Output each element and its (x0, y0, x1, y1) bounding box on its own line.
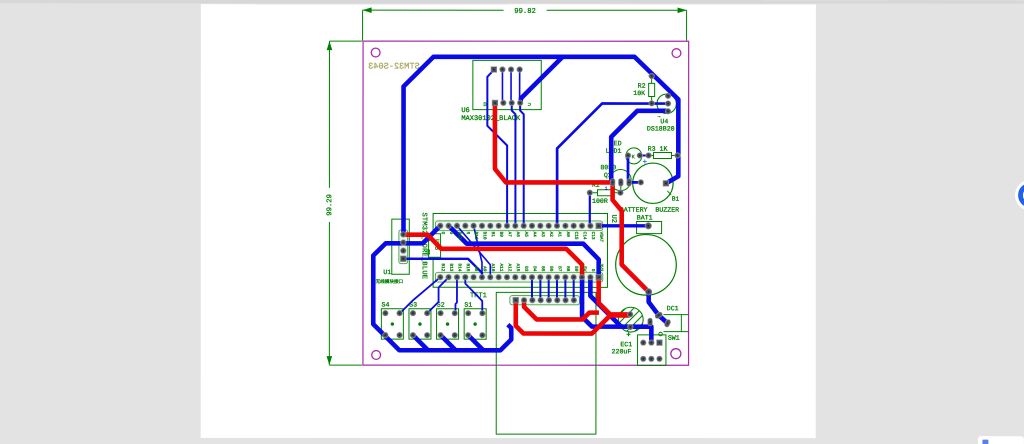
led LED1 outline (626, 148, 642, 164)
wire LED1 anode to R3 (640, 154, 649, 156)
svg-text:8050: 8050 (600, 164, 616, 171)
dimension arrowheads (363, 7, 372, 13)
svg-text:B11: B11 (473, 232, 478, 240)
wire header to TFT pad4 (539, 277, 541, 300)
svg-text:99.29: 99.29 (326, 194, 334, 216)
led LED1 pads (625, 153, 642, 159)
svg-text:B9: B9 (573, 266, 578, 272)
wire header to TFT pad5 (548, 277, 550, 300)
svg-text:G: G (448, 232, 453, 235)
dimension 99.29 vertical line (328, 41, 330, 365)
svg-text:→: → (658, 114, 661, 120)
buzzer B1 pads (638, 180, 669, 187)
transistor Q1 8050 outline (610, 169, 631, 190)
svg-text:A6: A6 (515, 232, 520, 238)
capacitor EC1 pads (627, 312, 633, 330)
svg-text:220uF: 220uF (612, 348, 632, 355)
wire header to TFT pad3 (531, 277, 533, 300)
svg-text:B8: B8 (565, 266, 570, 272)
push button S2 (437, 302, 459, 340)
wire square pad down to EC1 plus (599, 276, 630, 315)
resistor R3 pads (646, 153, 681, 159)
svg-text:B10: B10 (482, 232, 487, 240)
svg-text:B0: B0 (498, 232, 503, 238)
wire U6 pad1 route to header A7 (487, 70, 507, 226)
wire S2 to header B14 (455, 277, 457, 313)
svg-text:U4: U4 (660, 118, 668, 125)
wire U6 row stub c (519, 71, 521, 102)
wire header to TFT pad8 (573, 277, 575, 300)
module U6 pads (491, 67, 523, 106)
dimension 99.82 horizontal line (363, 9, 687, 11)
svg-text:VBAT: VBAT (598, 232, 603, 243)
button pads S4 S3 S2 S1 (383, 310, 486, 338)
svg-text:DC1: DC1 (667, 305, 679, 312)
svg-text:A12: A12 (507, 263, 512, 271)
wire U6 row stub b (510, 71, 512, 102)
svg-text:A5: A5 (523, 232, 528, 238)
resistor R2 pads (649, 73, 655, 106)
svg-text:U1: U1 (383, 269, 391, 276)
svg-text:R3 1K: R3 1K (648, 146, 668, 153)
svg-text:C14: C14 (582, 232, 587, 240)
wire S4 to header B12 (400, 277, 440, 313)
polarity mark near R3 (643, 159, 647, 163)
wire U2 pin2 across to square pad (449, 226, 599, 276)
transistor Q1 pads (610, 179, 631, 187)
push button S3 (409, 302, 431, 340)
svg-text:5V: 5V (582, 266, 587, 272)
header U2 bottom pin labels (440, 263, 603, 271)
svg-text:B15: B15 (465, 263, 470, 271)
svg-text:STM32-S043: STM32-S043 (368, 61, 420, 71)
wire button S1 tap (468, 335, 483, 350)
svg-text:B4: B4 (532, 266, 537, 272)
resistor R2 (649, 76, 655, 103)
svg-text:R: R (465, 232, 470, 235)
svg-text:SW1: SW1 (668, 335, 680, 342)
wire header to TFT pad6 (556, 277, 558, 300)
wire TFT pad1 to EC1 (516, 300, 630, 333)
wire header to TFT pad7 (564, 277, 566, 300)
svg-text:R13: R13 (457, 232, 462, 240)
mounting hole bottom-right (671, 349, 681, 359)
svg-text:C15: C15 (573, 232, 578, 240)
dimension extension line top (329, 40, 362, 42)
floating refresh button (clipped at right edge) (1015, 180, 1024, 211)
wire header diagonal a (457, 226, 490, 277)
wire U4 pin3 to Q1 (611, 111, 668, 183)
wire Q1 to buzzer (629, 181, 641, 184)
svg-text:B13: B13 (448, 263, 453, 271)
resistor R1 pads (587, 190, 623, 196)
header U2 bottom row pads (438, 274, 602, 280)
svg-text:A8: A8 (473, 266, 478, 272)
wire U1 pin4 to header B-row (403, 259, 482, 277)
wire U1 pin1 across header (403, 235, 582, 276)
battery clip pad (645, 223, 651, 229)
resistor R3 (649, 152, 678, 158)
pin header U2 outline (433, 213, 607, 287)
svg-text:B1: B1 (490, 232, 495, 238)
capacitor EC1 outline hatched (618, 307, 643, 332)
wire bottom-layer to EC1 minus (582, 276, 651, 342)
svg-text:STM32_CORE_BLUE: STM32_CORE_BLUE (420, 212, 428, 279)
svg-text:B12: B12 (440, 263, 445, 271)
wire U6 pin to header A5 (520, 104, 524, 226)
wire R1 to header C13 (589, 193, 591, 226)
dimension extension line left (362, 10, 364, 40)
buzzer B1 outline (633, 163, 673, 203)
wire R2/U4 to header A1 (557, 104, 668, 226)
TFT1 pads (513, 297, 577, 303)
usb connector symbol (429, 234, 441, 258)
wire button S3 tap (413, 335, 428, 350)
sensor U4 pads (665, 93, 671, 114)
mounting hole top-right (672, 49, 681, 58)
svg-text:S4: S4 (382, 302, 390, 309)
svg-text:A9: A9 (482, 266, 487, 272)
wire VBAT pad to battery clip (599, 224, 649, 227)
svg-text:MAX30102_BLACK: MAX30102_BLACK (461, 115, 521, 123)
mounting hole bottom-left (372, 351, 381, 360)
svg-text:B1: B1 (672, 196, 680, 203)
wire Q1 to battery plus (613, 182, 649, 292)
svg-text:EC1: EC1 (620, 341, 632, 348)
svg-text:A7: A7 (507, 232, 512, 238)
svg-text:S1: S1 (464, 302, 472, 309)
svg-text:B3: B3 (523, 266, 528, 272)
switch SW1 (638, 335, 666, 366)
svg-text:无线模块接口: 无线模块接口 (376, 278, 404, 285)
svg-text:B6: B6 (548, 266, 553, 272)
svg-text:U6: U6 (461, 107, 469, 115)
svg-text:⊃: ⊃ (528, 101, 531, 108)
svg-text:A3: A3 (540, 232, 545, 238)
wire GND left loop to button bus (373, 226, 511, 351)
wire U6 row stub a (501, 71, 503, 102)
wire TFT pad2 loop (524, 300, 599, 319)
header U2 top row pads (438, 223, 602, 229)
switch SW1 pads (640, 340, 662, 362)
svg-text:BUZZER: BUZZER (655, 207, 679, 214)
svg-text:A11: A11 (498, 263, 503, 271)
wire top trace into U6 pad (520, 57, 562, 103)
mounting hole top-left (371, 48, 380, 57)
svg-text:LED1: LED1 (606, 148, 622, 155)
svg-text:99.82: 99.82 (514, 8, 536, 16)
svg-text:A1: A1 (557, 232, 562, 238)
svg-text:3V3: 3V3 (598, 264, 603, 272)
svg-text:B14: B14 (457, 263, 462, 271)
white canvas sheet (201, 4, 816, 438)
wireless module connector U1 (392, 219, 410, 274)
svg-text:100R: 100R (592, 198, 608, 205)
svg-text:A0: A0 (565, 232, 570, 238)
wire U2 pad to EC1 junction (590, 277, 621, 327)
board outline (363, 41, 689, 365)
push button S4 (381, 302, 403, 340)
svg-text:10K: 10K (633, 90, 645, 97)
display connector TFT1 outline (496, 292, 596, 434)
dimension extension line bottom (329, 364, 362, 366)
wire LED1 cathode to Q1 collector (627, 155, 630, 182)
svg-text:R2: R2 (638, 83, 646, 90)
svg-text:B7: B7 (557, 266, 562, 272)
partial toolbar bottom-right (978, 436, 1024, 444)
svg-text:B5: B5 (540, 266, 545, 272)
wire GND outer loop top/right (403, 57, 678, 235)
header U2 top pin labels (440, 232, 603, 243)
wire S1 to header B15 (465, 277, 482, 313)
op module U6 MAX30102 outline (473, 60, 541, 109)
svg-text:A10: A10 (490, 263, 495, 271)
svg-text:A4: A4 (532, 232, 537, 238)
wire header diagonal b (474, 226, 482, 277)
wire battery minus to DC1 (649, 292, 668, 323)
svg-text:A15: A15 (515, 263, 520, 271)
module U1 pads (400, 232, 406, 262)
svg-text:U2: U2 (609, 215, 617, 223)
svg-text:C13: C13 (590, 232, 595, 240)
svg-text:G: G (590, 269, 595, 272)
svg-text:A2: A2 (548, 232, 553, 238)
wire S3 to header B13 (427, 277, 448, 313)
dimension extension line right (686, 10, 688, 40)
wire button S2 tap (441, 335, 456, 350)
resistor R1 (598, 190, 612, 196)
svg-text:DS18B20: DS18B20 (647, 125, 675, 132)
svg-text:1: 1 (605, 186, 608, 192)
push button S1 (464, 302, 486, 340)
jack DC1 pads (648, 311, 671, 327)
wire U6 pin to header A6 (512, 104, 516, 226)
svg-text:G: G (440, 232, 445, 235)
svg-text:BAT1: BAT1 (637, 214, 653, 221)
battery minus pad (645, 289, 651, 295)
wire U6 square pad to Q1 base drive (495, 103, 613, 183)
temperature sensor U4 DS18B20 (657, 94, 676, 113)
